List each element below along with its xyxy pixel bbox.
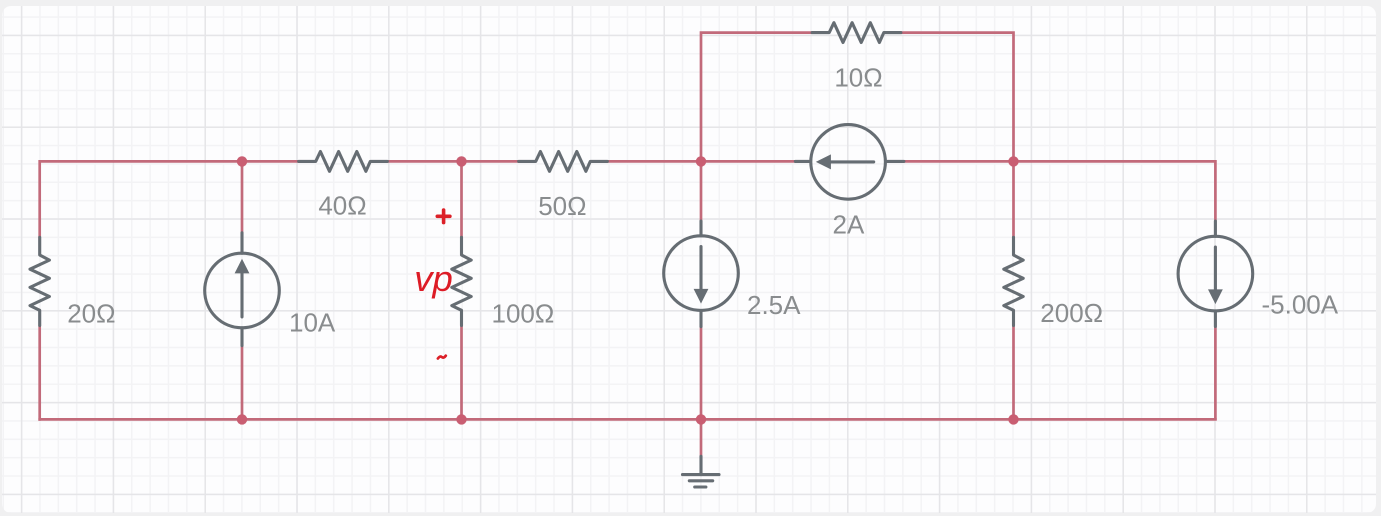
svg-text:-5.00A: -5.00A [1262, 290, 1339, 320]
svg-text:10A: 10A [289, 307, 336, 337]
svg-text:20Ω: 20Ω [67, 298, 115, 328]
svg-text:50Ω: 50Ω [538, 191, 586, 221]
svg-text:vp: vp [414, 258, 453, 299]
svg-text:100Ω: 100Ω [492, 299, 555, 329]
svg-text:2A: 2A [832, 209, 864, 239]
svg-text:2.5A: 2.5A [747, 290, 801, 320]
svg-text:10Ω: 10Ω [834, 63, 882, 93]
svg-text:200Ω: 200Ω [1040, 298, 1103, 328]
svg-text:40Ω: 40Ω [318, 191, 366, 221]
